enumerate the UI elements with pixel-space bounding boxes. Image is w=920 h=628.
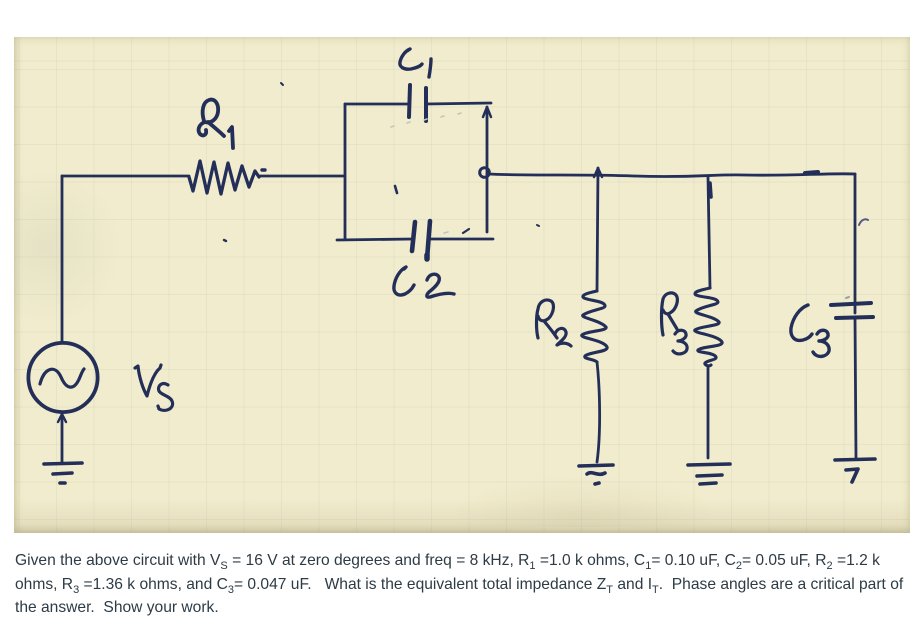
resistor R1 [189, 161, 259, 194]
label VS [135, 365, 173, 410]
label C2 [394, 267, 454, 297]
wire: overlap dash on bus [805, 172, 818, 173]
label C1 [400, 49, 431, 77]
resistor R3 [695, 288, 722, 366]
speck mid [395, 186, 397, 193]
speck top [281, 83, 283, 85]
ground (R3) [688, 464, 730, 484]
label C3 [791, 305, 829, 356]
wire: R3 branch vertical [708, 177, 710, 288]
node: parallel section right bar [486, 107, 489, 232]
arrowhead at top of right bar [483, 107, 491, 117]
capacitor C2 [412, 221, 430, 259]
ink dot after R1 [262, 168, 265, 171]
capacitor C1 [409, 85, 426, 121]
label R1 [199, 100, 233, 148]
wire: R3 to ground [707, 367, 710, 458]
ground (R2) [579, 465, 613, 484]
wire: left vertical from top wire down to source [61, 176, 64, 341]
wire: R2 to ground [597, 362, 600, 462]
wire: top horizontal right segment [259, 175, 345, 178]
speck below R1 [224, 240, 226, 241]
wire: C2 branch right [431, 238, 493, 241]
wire: R2 branch vertical [597, 168, 598, 291]
wire: C3 to ground [855, 318, 856, 458]
label R2 [537, 300, 572, 346]
wire: top horizontal left segment [62, 175, 189, 178]
node: parallel section left bar [344, 104, 347, 238]
arrow tick near C2 right [463, 229, 469, 233]
wire: C1 branch right [426, 103, 491, 104]
pen slip tick on C3 wire [859, 219, 868, 225]
label R3 [662, 293, 688, 354]
node A junction circle [480, 168, 490, 178]
ground (source) [44, 463, 82, 483]
ground (C3) [835, 459, 875, 482]
pencil dot above C3 plate [846, 297, 849, 298]
pencil dotted trail [391, 113, 461, 233]
wire: source to ground [61, 414, 64, 462]
sine wave inside source [40, 369, 84, 387]
arrowhead at top of R2 branch [594, 168, 602, 177]
resistor R2 [582, 291, 607, 362]
speck right of node [537, 225, 539, 226]
capacitor C3 [831, 303, 873, 318]
arrowhead at source bottom [58, 414, 66, 422]
source VS circle [28, 343, 97, 412]
wire: C2 branch left [337, 239, 413, 240]
wire: main horizontal bus [487, 174, 855, 177]
wire: C1 branch left [345, 103, 409, 106]
wire: bus corner down to C3 [854, 174, 857, 313]
